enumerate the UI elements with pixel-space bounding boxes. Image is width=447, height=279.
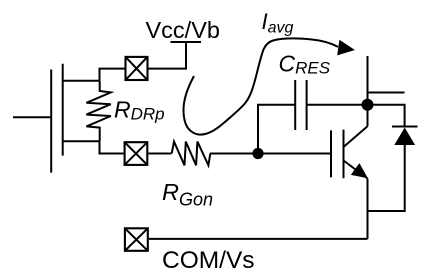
svg-text:RGon: RGon [162, 179, 213, 210]
svg-text:Vcc/Vb: Vcc/Vb [146, 17, 220, 43]
wire driver bottom lead [63, 140, 100, 142]
junction node gate and C_RES branch [252, 148, 263, 159]
wire driver top lead [63, 80, 100, 82]
wire emitter down [367, 179, 369, 239]
terminal X-box gate drive [125, 142, 148, 165]
node Vcc/Vb terminal bar [171, 41, 202, 43]
diode D1 freewheel [392, 127, 418, 146]
wire C_RES right lead [307, 104, 368, 106]
transistor Q2 IGBT [331, 126, 368, 178]
wire emitter to COM terminal [149, 238, 368, 240]
transistor Q1 driver MOSFET [51, 64, 63, 173]
junction node collector [362, 99, 374, 111]
wire node to diode cathode branch [368, 105, 405, 126]
current arrow I_avg [184, 38, 355, 134]
wire top branch right of box to Vcc bar [149, 42, 187, 69]
svg-text:CRES: CRES [279, 50, 331, 77]
svg-text:RDRp: RDRp [114, 97, 165, 124]
terminal X-box Vcc/Vb [126, 57, 148, 80]
wire diode anode to emitter [368, 145, 405, 211]
svg-text:Iavg: Iavg [262, 9, 294, 36]
wire bottom branch to gate terminal box [100, 141, 124, 153]
resistor R_Gon [172, 142, 211, 166]
wire top branch left of Vcc terminal box [100, 69, 125, 81]
wire collector riser [367, 56, 369, 126]
capacitor C_RES [295, 80, 306, 130]
resistor R_DRp [86, 81, 110, 142]
terminal X-box COM/Vs [125, 228, 148, 251]
wire R_Gon to IGBT gate [210, 153, 331, 155]
wire terminal box to R_Gon [148, 153, 171, 155]
svg-text:COM/Vs: COM/Vs [162, 247, 255, 274]
wire C_RES left branch riser [258, 105, 295, 154]
wire collector stub [368, 92, 405, 94]
wire gate lead to driver MOSFET [13, 116, 51, 118]
